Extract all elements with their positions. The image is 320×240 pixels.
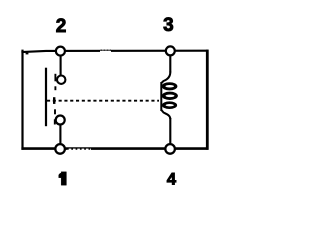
svg-text:3: 3 [163, 15, 174, 36]
svg-text:2: 2 [56, 16, 67, 37]
svg-text:4: 4 [167, 169, 177, 188]
